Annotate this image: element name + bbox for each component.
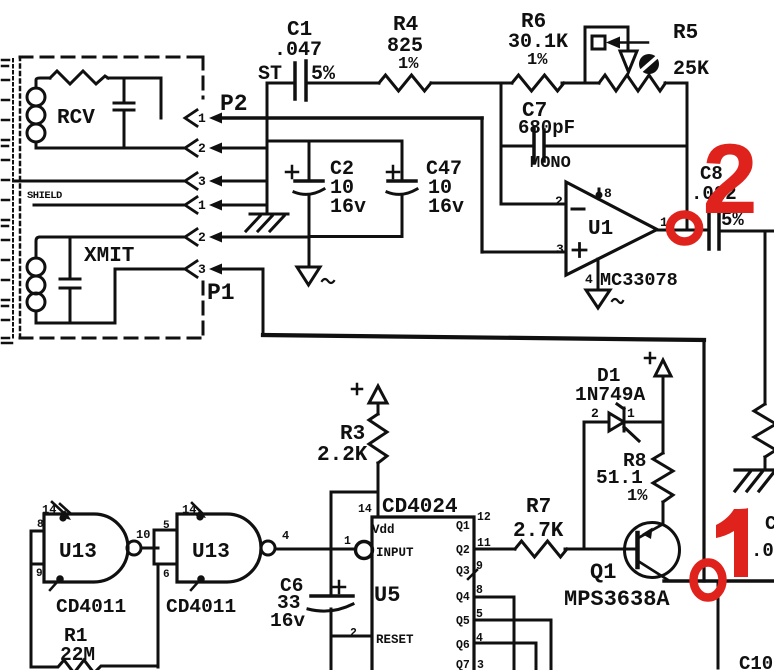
wire XMIT bottom	[36, 269, 185, 323]
wire to R8	[662, 423, 665, 453]
wire R8 to Q1 emitter	[662, 502, 665, 524]
svg-text:Q3: Q3	[456, 565, 470, 578]
capacitor in XMIT	[60, 237, 80, 323]
capacitor C2	[308, 141, 311, 180]
wire RCV bottom	[36, 147, 185, 150]
node vertical to C7 and op-amp pin2	[500, 83, 503, 204]
svg-text:U5: U5	[374, 583, 400, 608]
red callout numeral 1	[716, 508, 748, 577]
potentiometer R5	[599, 75, 666, 91]
nand gate U13 b body	[177, 514, 261, 582]
wire P1 pin1 to ground rail	[218, 204, 267, 207]
svg-text:Q6: Q6	[456, 639, 470, 652]
capacitor C6	[311, 594, 353, 598]
svg-text:5: 5	[163, 520, 170, 532]
op-amp pin 2 wire	[501, 203, 566, 206]
svg-text:3: 3	[556, 242, 564, 257]
svg-text:R7: R7	[526, 496, 551, 519]
wire XMIT top to P1 pin2	[40, 236, 185, 239]
svg-text:1: 1	[198, 198, 206, 213]
svg-text:9: 9	[36, 568, 43, 580]
svg-text:2: 2	[198, 141, 206, 156]
R5 wiper arrow triangle	[620, 51, 637, 72]
svg-text:MONO: MONO	[530, 154, 571, 173]
svg-text:U1: U1	[588, 218, 613, 241]
svg-text:2.7K: 2.7K	[513, 520, 564, 543]
wire R6 to R5	[562, 82, 599, 85]
op-amp pin 3 wire	[482, 251, 566, 254]
resistor R1	[31, 660, 158, 670]
svg-text:2.2K: 2.2K	[317, 444, 368, 467]
U5 pin4 wire	[474, 643, 536, 670]
svg-text:2: 2	[591, 406, 599, 421]
svg-text:4: 4	[282, 529, 289, 543]
svg-text:1: 1	[344, 535, 351, 548]
svg-text:R4: R4	[393, 14, 418, 37]
svg-text:2: 2	[555, 194, 563, 209]
capacitor C8	[709, 212, 719, 249]
shield braid ticks	[2, 60, 9, 338]
wire P2 pin3 to ground rail	[218, 180, 267, 183]
svg-text:3: 3	[198, 174, 206, 189]
transistor Q1	[625, 523, 680, 578]
svg-text:16v: 16v	[270, 610, 305, 632]
wire R5 to output node	[665, 82, 687, 85]
capacitor C47	[401, 141, 404, 180]
svg-text:Q7: Q7	[456, 659, 470, 670]
gate a input tie and stubs	[31, 531, 44, 564]
negative supply symbol below C2	[297, 267, 320, 285]
red callout ring 1 at Q1 collector	[694, 563, 723, 598]
gate b pin7 dot	[197, 575, 205, 583]
U5 pin1 input bubble	[356, 542, 373, 559]
R5 adjust square	[592, 36, 605, 49]
R5 screw symbol	[639, 54, 659, 74]
svg-text:R3: R3	[340, 423, 365, 446]
supply branch to C6 rail	[331, 492, 378, 670]
long bottom wire to Q1 collector node	[263, 335, 704, 340]
R5 wiper loop wire	[585, 27, 628, 83]
svg-text:25K: 25K	[673, 58, 709, 81]
svg-text:CD4011: CD4011	[56, 596, 126, 618]
svg-text:Q5: Q5	[456, 615, 470, 628]
svg-text:P1: P1	[207, 280, 235, 306]
power symbol plus D1	[645, 353, 655, 363]
zener diode D1	[584, 421, 609, 424]
red callout ring 2 at op-amp output	[670, 215, 699, 242]
capacitor in RCV	[114, 78, 134, 148]
svg-text:ST: ST	[258, 63, 282, 86]
svg-text:Q2: Q2	[456, 544, 470, 557]
svg-text:C: C	[765, 513, 774, 535]
svg-text:3: 3	[198, 262, 206, 277]
svg-text:2: 2	[198, 230, 206, 245]
svg-text:680pF: 680pF	[518, 117, 575, 139]
wire gate b output to U5	[275, 548, 354, 551]
wire R4 to R6	[431, 82, 512, 85]
op-amp pin 8 stub	[598, 189, 601, 199]
svg-text:Q1: Q1	[456, 520, 470, 533]
svg-text:XMIT: XMIT	[84, 245, 134, 268]
svg-text:6: 6	[163, 569, 170, 581]
svg-text:4: 4	[585, 272, 593, 287]
U5 output labels Q1-Q7	[456, 520, 470, 670]
U5 pin11 wire to R7	[474, 548, 515, 551]
gate b input tie and stubs	[154, 530, 177, 564]
svg-text:8: 8	[604, 186, 612, 201]
op-amp output wire	[657, 229, 709, 232]
svg-text:SHIELD: SHIELD	[27, 190, 62, 202]
wire C1 left to ground rail	[267, 82, 294, 85]
op-amp pin 4 stub and negative supply	[597, 259, 600, 290]
svg-text:12: 12	[477, 511, 491, 524]
svg-text:Vdd: Vdd	[372, 523, 395, 537]
svg-text:.0: .0	[751, 540, 774, 562]
svg-text:2: 2	[350, 627, 357, 640]
svg-text:8: 8	[476, 584, 483, 597]
svg-text:16v: 16v	[330, 196, 366, 219]
svg-text:R5: R5	[673, 22, 698, 45]
svg-text:Q1: Q1	[590, 560, 616, 585]
feedback wire gate a inputs down	[30, 564, 33, 667]
resistor R6	[512, 75, 564, 91]
U5 pin8 wire	[474, 597, 514, 670]
gate a pin7 dot	[56, 575, 64, 583]
nand gate U13 a body	[44, 514, 128, 582]
connector pins chevrons and arrows	[185, 110, 197, 277]
vertical wire down to node 1	[702, 340, 705, 581]
wire C8 to right edge	[719, 230, 774, 233]
svg-text:Q4: Q4	[456, 591, 470, 604]
capacitor C7	[534, 128, 544, 163]
wire P1 pin1 shield	[34, 204, 185, 207]
wire RCV top to P2 pin1	[108, 78, 161, 118]
svg-text:RESET: RESET	[376, 633, 414, 647]
feedback wire gate b inputs down	[157, 564, 160, 667]
wire P2 pin2 to ground rail	[218, 147, 267, 150]
resistor R7	[515, 541, 567, 557]
wire P1 pin3 corner down	[218, 269, 263, 335]
feedback vertical right	[686, 83, 689, 230]
svg-text:22M: 22M	[60, 644, 95, 666]
svg-text:CD4024: CD4024	[382, 496, 458, 519]
R5 adjust arrow	[606, 37, 620, 49]
svg-text:.047: .047	[274, 39, 322, 62]
collector wire to node 1	[664, 579, 774, 582]
ground symbol right	[735, 470, 774, 491]
svg-text:MPS3638A: MPS3638A	[564, 587, 670, 612]
capacitor C1	[295, 61, 306, 100]
signal bus P2 pin1 to op-amp	[218, 116, 482, 120]
svg-text:U13: U13	[192, 541, 230, 564]
svg-text:1%: 1%	[527, 51, 548, 70]
dashed enclosure box	[20, 56, 203, 59]
svg-text:1%: 1%	[627, 487, 648, 506]
U5 pin5 wire	[474, 620, 551, 670]
wire R3 to U5 pin14	[377, 463, 380, 517]
svg-text:4: 4	[476, 632, 483, 645]
svg-text:RCV: RCV	[57, 107, 95, 130]
wire C7 branch	[501, 145, 687, 148]
bus P1 pin2 to caps bottom	[218, 235, 402, 239]
transformer XMIT coil	[27, 237, 45, 323]
cap top bus	[267, 140, 402, 143]
wire P2 pin3 shield	[14, 180, 185, 183]
svg-text:10: 10	[136, 528, 150, 542]
load resistor right column	[754, 404, 774, 457]
svg-text:P2: P2	[220, 91, 248, 117]
shield dotted line	[12, 59, 14, 338]
svg-text:1: 1	[198, 111, 206, 126]
power symbol plus R3	[352, 384, 362, 394]
vertical to load resistor	[764, 231, 767, 404]
svg-text:3: 3	[477, 659, 484, 670]
svg-text:8: 8	[37, 519, 44, 531]
resistor R8	[653, 453, 673, 502]
resistor R4	[379, 75, 431, 91]
transformer RCV coil	[27, 78, 50, 148]
svg-text:5: 5	[476, 608, 483, 621]
wire C1 to R4	[306, 82, 379, 85]
IC U5 box	[372, 517, 474, 670]
U5 pin2 reset wire	[331, 635, 372, 638]
svg-text:16v: 16v	[428, 196, 464, 219]
svg-text:1N749A: 1N749A	[575, 384, 646, 406]
op-amp U1 triangle	[566, 182, 657, 275]
svg-text:2: 2	[702, 123, 757, 234]
svg-text:MC33078: MC33078	[600, 270, 678, 291]
wire R7 to Q1 base	[565, 548, 636, 551]
svg-text:1: 1	[627, 406, 635, 421]
svg-text:11: 11	[477, 537, 491, 550]
wire gate a output to gate b	[142, 547, 158, 550]
resistor R3	[369, 414, 387, 463]
svg-text:C10: C10	[739, 653, 773, 670]
svg-text:INPUT: INPUT	[376, 546, 414, 560]
wire node 1 down to C10	[717, 581, 720, 668]
svg-text:14: 14	[358, 503, 372, 516]
branch D1 from base node	[583, 423, 586, 549]
ground rail vertical	[266, 83, 269, 212]
svg-text:1%: 1%	[398, 55, 419, 74]
RCV primary winding zigzag	[50, 71, 108, 84]
svg-text:U13: U13	[59, 541, 97, 564]
ground symbol near P2	[246, 214, 288, 231]
svg-text:CD4011: CD4011	[166, 596, 236, 618]
svg-text:51.1: 51.1	[596, 467, 643, 489]
